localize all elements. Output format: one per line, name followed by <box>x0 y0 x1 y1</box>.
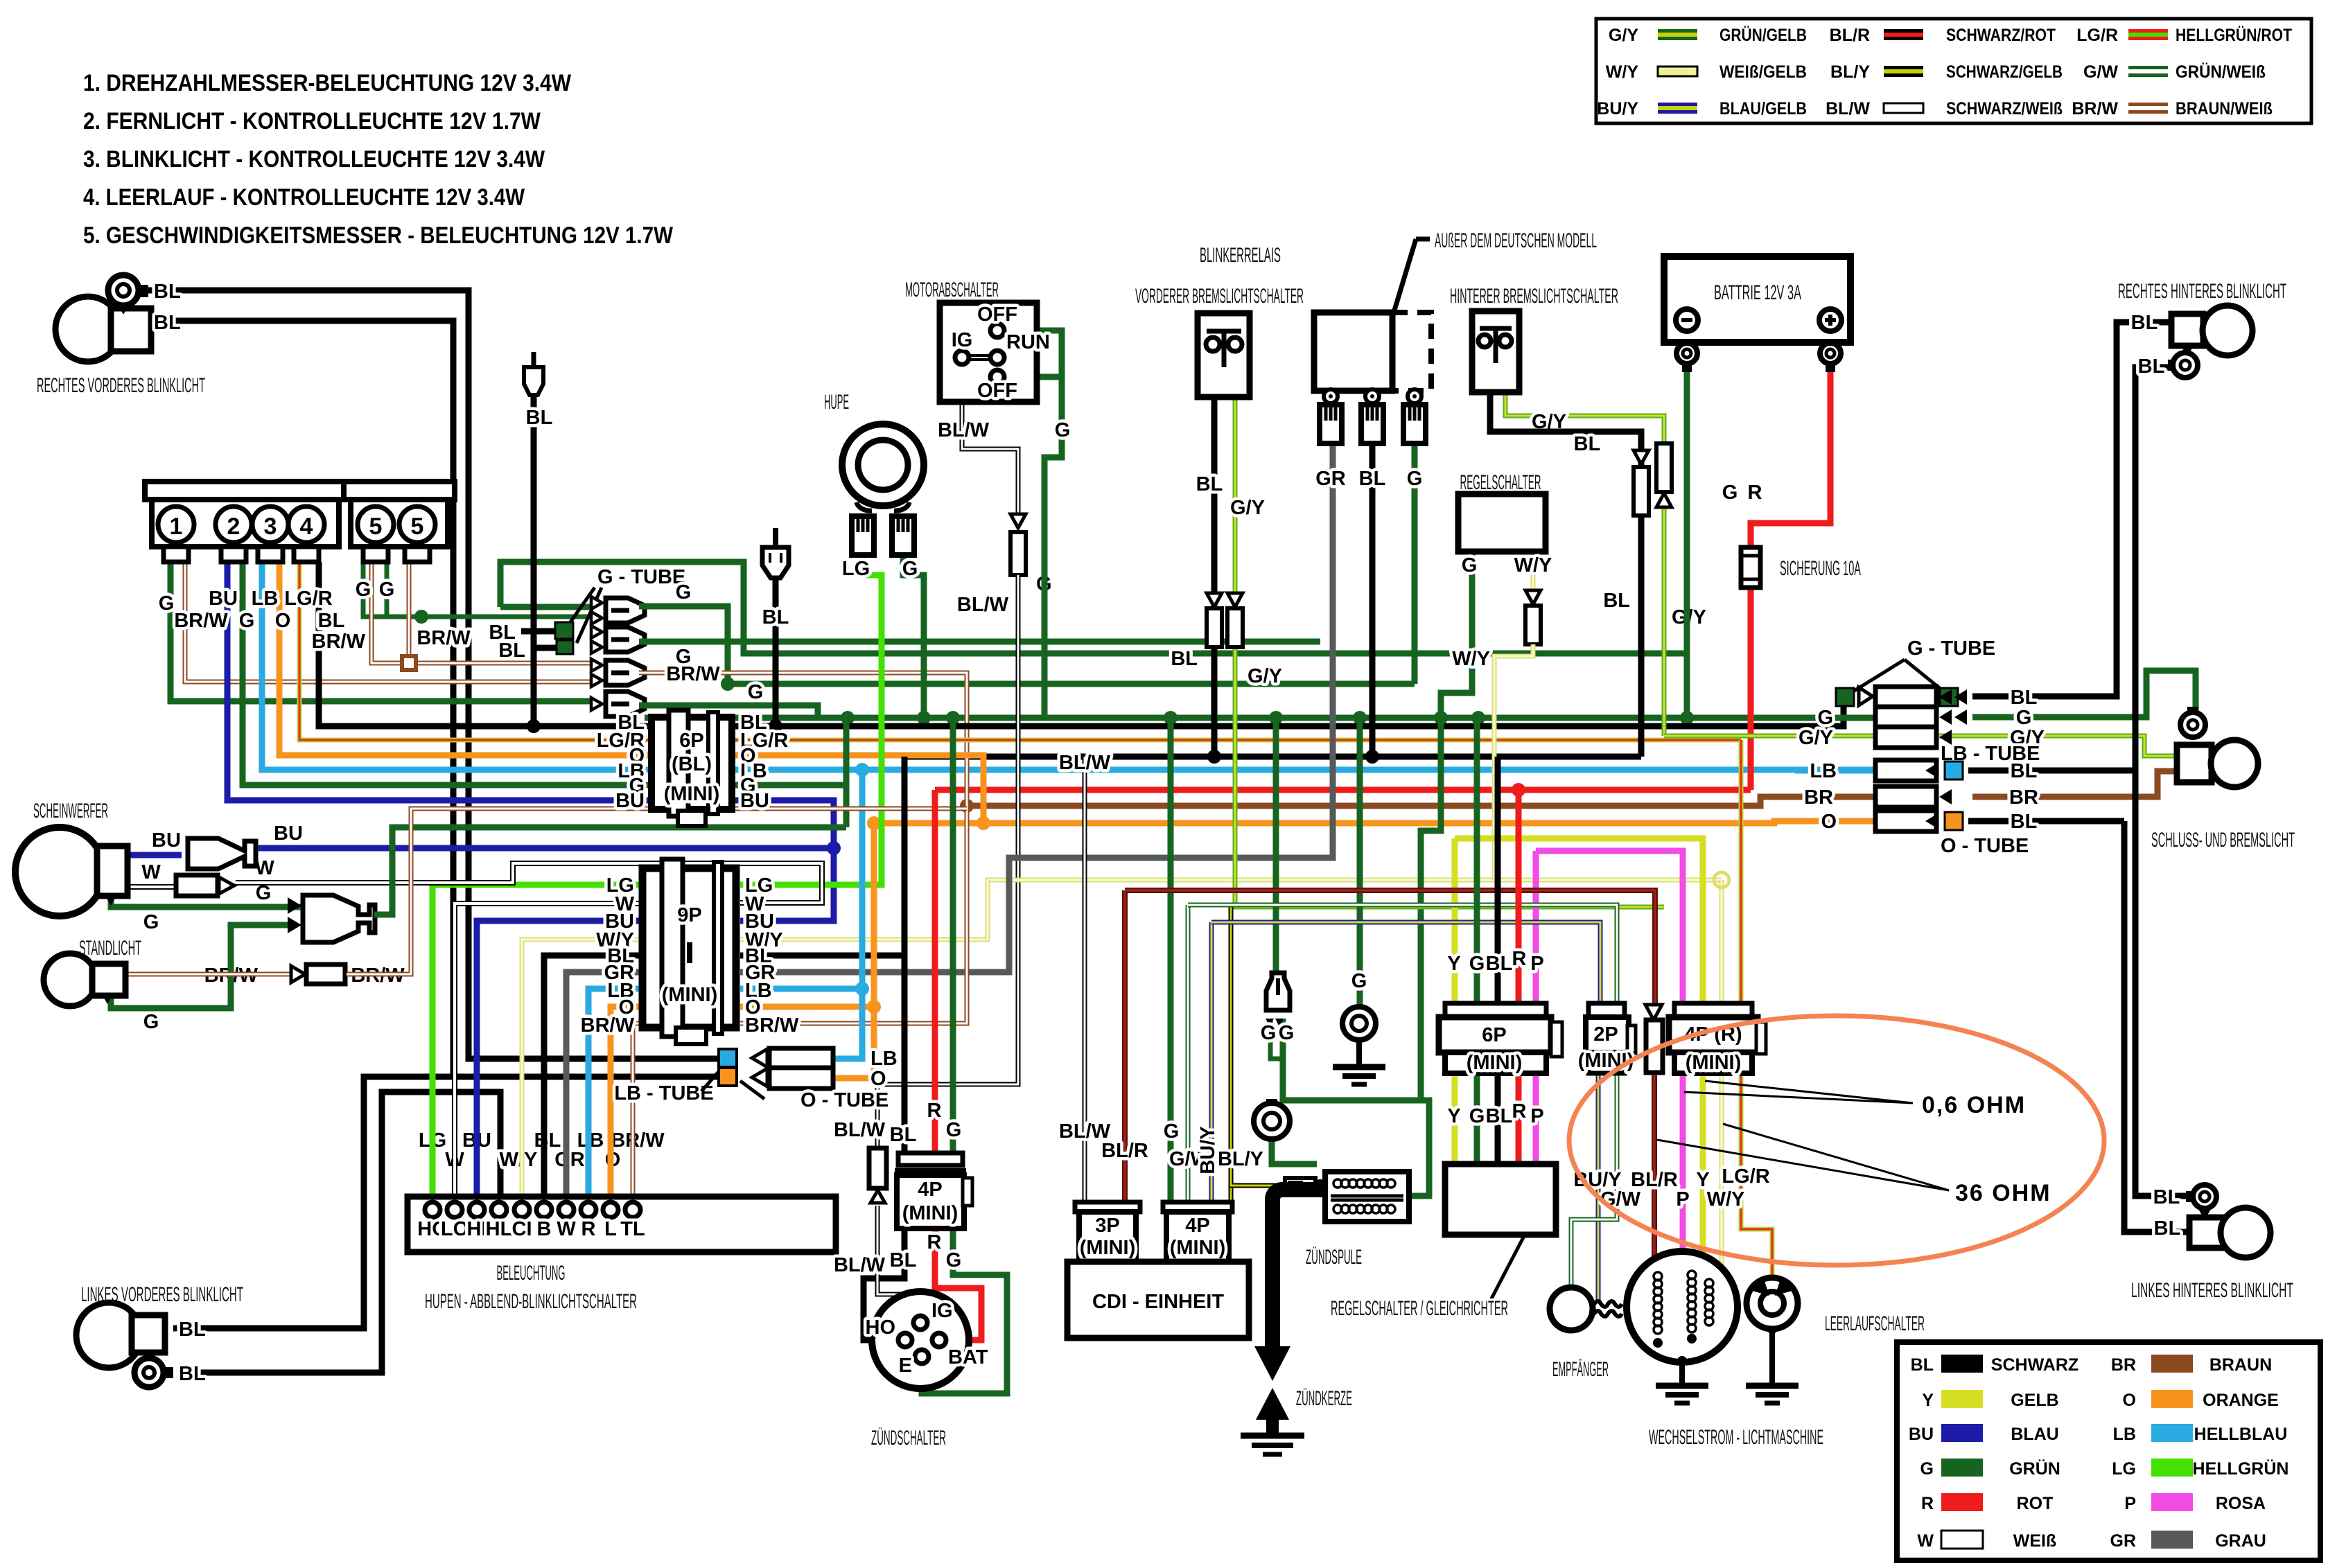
wire R bus <box>935 787 1751 793</box>
svg-text:GR: GR <box>1315 468 1346 490</box>
wire G-TUBE row4 out <box>639 705 818 718</box>
svg-text:Y: Y <box>1922 1391 1934 1410</box>
svg-text:EMPFÄNGER: EMPFÄNGER <box>1552 1358 1609 1381</box>
wire stop switch G1 <box>1004 331 1062 377</box>
svg-text:BL: BL <box>2011 760 2038 782</box>
wire Y loop h <box>1455 838 1703 1003</box>
wire switch HO LG <box>432 885 642 1201</box>
svg-text:4: 4 <box>300 513 313 540</box>
connector row G <box>1875 707 1936 728</box>
svg-text:R: R <box>927 1231 942 1253</box>
svg-text:4P: 4P <box>918 1179 942 1201</box>
wire headlight W <box>128 884 176 890</box>
svg-text:G: G <box>946 1119 962 1141</box>
svg-text:(MINI): (MINI) <box>1080 1237 1136 1259</box>
svg-text:BAT: BAT <box>948 1346 988 1368</box>
wire blinker BL drop <box>531 395 537 726</box>
wire cluster lamp1 G <box>170 562 591 701</box>
svg-text:G: G <box>1469 1105 1485 1127</box>
svg-text:O - TUBE: O - TUBE <box>800 1089 889 1111</box>
svg-text:1: 1 <box>170 513 183 540</box>
svg-text:BR/W: BR/W <box>417 627 471 649</box>
wire cluster lamp1 BRW <box>185 562 591 682</box>
svg-text:BR: BR <box>2111 1355 2136 1375</box>
svg-text:HELLGRÜN/ROT: HELLGRÜN/ROT <box>2176 25 2292 45</box>
svg-text:W: W <box>557 1218 576 1240</box>
svg-text:2: 2 <box>227 513 240 540</box>
svg-text:BATTRIE 12V 3A: BATTRIE 12V 3A <box>1714 281 1801 304</box>
wire 9P GR right <box>740 443 1333 972</box>
wire WY low <box>1709 1073 1722 1275</box>
svg-text:BL: BL <box>2154 1217 2181 1240</box>
wire horn G <box>903 555 924 718</box>
wire right front blinker BL1 <box>148 290 719 1059</box>
wire plug BL <box>773 578 779 726</box>
svg-text:RECHTES VORDERES BLINKLICHT: RECHTES VORDERES BLINKLICHT <box>37 374 205 397</box>
wire cluster lamp4 BL <box>319 562 651 726</box>
wire left front blinker BL2 <box>182 1092 500 1373</box>
svg-text:AUßER DEM DEUTSCHEN MODELL: AUßER DEM DEUTSCHEN MODELL <box>1435 229 1597 252</box>
connector row LB/BL with LB tube <box>1875 760 1936 781</box>
wire ign BLW <box>877 1206 920 1316</box>
svg-text:3. BLINKLICHT - KONTROLLEUCHTE: 3. BLINKLICHT - KONTROLLEUCHTE 12V 3.4W <box>83 146 545 173</box>
wire CDI G <box>1168 718 1174 1202</box>
wire headlight W2 <box>236 880 301 886</box>
neutral switch (LEERLAUFSCHALTER) <box>1747 1278 1798 1329</box>
G-TUBE green squares <box>1836 688 1854 706</box>
svg-text:SCHWARZ/WEIß: SCHWARZ/WEIß <box>1946 99 2063 118</box>
wire ign R <box>935 1228 981 1340</box>
svg-text:BRAUN/WEIß: BRAUN/WEIß <box>2176 99 2273 118</box>
svg-text:VORDERER BREMSLICHTSCHALTER: VORDERER BREMSLICHTSCHALTER <box>1135 285 1304 308</box>
wire P loop h <box>1536 851 1683 1003</box>
wire G mid <box>728 681 1415 687</box>
svg-text:BR: BR <box>1804 786 1833 809</box>
svg-text:B: B <box>537 1218 552 1240</box>
wire G row right2 <box>1972 671 2196 717</box>
O-TUBE connector <box>719 1068 737 1086</box>
svg-text:BL: BL <box>179 1319 206 1341</box>
svg-text:BL: BL <box>154 281 181 303</box>
wire R to ignition <box>932 790 938 1153</box>
svg-text:W: W <box>1917 1531 1934 1551</box>
wire horn LG <box>740 555 882 885</box>
svg-text:BU/Y: BU/Y <box>1597 99 1638 118</box>
wire cluster lamp3 LB <box>262 562 651 770</box>
wire cluster lamp2 G <box>243 562 651 785</box>
connector 9P (MINI) <box>642 859 736 1044</box>
svg-text:IG: IG <box>952 329 973 351</box>
svg-text:HO: HO <box>866 1316 896 1339</box>
svg-text:P: P <box>1676 1188 1689 1210</box>
wire relay BL pin <box>1369 446 1376 757</box>
connector row O/BL with O tube <box>1875 811 1936 831</box>
svg-text:BU/Y: BU/Y <box>1197 1126 1219 1174</box>
svg-text:HL: HL <box>486 1218 513 1240</box>
svg-text:O: O <box>870 1068 886 1090</box>
svg-text:BL/W: BL/W <box>938 419 990 441</box>
svg-text:LB: LB <box>1810 760 1837 782</box>
wire G bus <box>645 715 1875 721</box>
svg-text:BL/Y: BL/Y <box>1218 1148 1263 1170</box>
svg-text:BL: BL <box>318 610 345 632</box>
svg-text:O - TUBE: O - TUBE <box>1941 835 2029 857</box>
svg-text:R: R <box>1921 1494 1934 1513</box>
svg-text:5: 5 <box>369 513 383 540</box>
wire CDI GW <box>1186 905 1191 1202</box>
svg-text:BR/W: BR/W <box>174 610 228 632</box>
svg-text:P: P <box>1530 953 1543 975</box>
svg-text:WEIß: WEIß <box>2013 1531 2057 1551</box>
wire thinGW loop <box>1188 905 1617 1003</box>
wire GY row <box>1664 734 1875 739</box>
svg-text:BL/W: BL/W <box>1826 99 1870 118</box>
svg-text:(MINI): (MINI) <box>1686 1052 1742 1074</box>
wire switch TL BRW <box>633 1023 642 1201</box>
bullet plug above 6P <box>762 547 789 578</box>
wire BL stub to G-TUBE 2 <box>531 645 557 651</box>
wire 6P G <box>1474 1073 1480 1164</box>
svg-text:W/Y: W/Y <box>1606 62 1639 82</box>
wire BR row right <box>1972 771 2177 797</box>
wire battery G <box>1684 372 1690 718</box>
connector 3P (MINI) <box>1075 1202 1140 1262</box>
wire 9P O right <box>740 1004 874 1010</box>
svg-text:BL: BL <box>1486 1105 1513 1127</box>
wire switch HI BU <box>477 921 642 1201</box>
wire LGR low <box>1741 1073 1772 1278</box>
svg-text:(MINI): (MINI) <box>662 984 718 1006</box>
svg-text:LB: LB <box>870 1048 898 1070</box>
svg-text:BL: BL <box>890 1124 917 1146</box>
svg-text:MOTORABSCHALTER: MOTORABSCHALTER <box>905 279 999 301</box>
wire G-TUBE row1 out <box>639 606 728 684</box>
svg-text:G: G <box>1462 554 1478 576</box>
wire regelschalter G <box>1441 552 1472 718</box>
svg-text:Y: Y <box>1447 1105 1460 1127</box>
wire RR blinker BL1 <box>1972 322 2173 696</box>
light/horn/dimmer switch box (BELEUCHTUNG HUPEN-ABBLEND-BLINKLICHTSCHALTER) <box>408 1197 836 1252</box>
pickup coil (EMPFÄNGER) <box>1550 1287 1593 1330</box>
wire LR blinker BL1 <box>2135 770 2193 1196</box>
spark plug cable and plug (ZÜNDKERZE) <box>1272 1190 1325 1346</box>
svg-text:(BL): (BL) <box>672 753 712 775</box>
svg-text:R: R <box>581 1218 596 1240</box>
wire cluster lamp3 O <box>279 562 651 755</box>
wire LR blinker BL2 <box>2124 821 2189 1232</box>
svg-text:BR/W: BR/W <box>2072 99 2118 118</box>
wire LB row left <box>1795 768 1875 774</box>
wire G-TUBE row2 out <box>639 639 1320 645</box>
wire 6P row LB right <box>732 767 862 773</box>
wire switch R LB <box>588 989 642 1201</box>
svg-text:BR/W: BR/W <box>611 1129 665 1152</box>
svg-text:LG: LG <box>2112 1459 2136 1479</box>
svg-text:WEIß/GELB: WEIß/GELB <box>1719 62 1807 82</box>
svg-text:O: O <box>2123 1391 2136 1410</box>
measurement ellipse (orange) <box>1569 1016 2104 1265</box>
svg-text:OFF: OFF <box>977 303 1017 326</box>
svg-text:CI: CI <box>512 1218 532 1240</box>
svg-text:W: W <box>141 861 161 883</box>
svg-text:BL/W: BL/W <box>834 1119 886 1141</box>
svg-text:G: G <box>143 911 159 933</box>
wire switch L O <box>611 1007 642 1201</box>
svg-text:BR/W: BR/W <box>581 1014 635 1037</box>
wire BL to ignition <box>902 757 908 1153</box>
wire RR blinker BL2 <box>1968 367 2168 770</box>
connector 6P (MINI) bottom <box>1439 1003 1562 1074</box>
svg-text:BU: BU <box>1909 1425 1934 1444</box>
wire 6P P low <box>1533 1073 1539 1164</box>
right front turn signal lamp (RECHTES VORDERES BLINKLICHT) <box>55 275 151 362</box>
connector row G/Y <box>1875 727 1936 748</box>
svg-text:5. GESCHWINDIGKEITSMESSER - BE: 5. GESCHWINDIGKEITSMESSER - BELEUCHTUNG … <box>83 222 674 249</box>
wire color legend (top right) <box>1596 19 2311 123</box>
svg-text:G/W: G/W <box>2083 62 2118 82</box>
svg-text:G: G <box>1469 953 1485 975</box>
svg-text:BR/W: BR/W <box>745 1014 799 1037</box>
wire BL bus <box>904 754 1641 760</box>
wire color legend (bottom right) <box>1897 1342 2320 1560</box>
wire standlicht BRW2 <box>347 809 967 974</box>
wire switch W GR <box>566 972 642 1201</box>
wire G ring CDI <box>1272 1140 1317 1164</box>
svg-text:SICHERUNG 10A: SICHERUNG 10A <box>1780 557 1861 580</box>
wire 6P R low <box>1516 1073 1522 1164</box>
svg-text:BL: BL <box>154 312 181 334</box>
wire stop switch BLW lower <box>877 575 1018 1148</box>
ignition switch (ZÜNDSCHALTER) <box>872 1292 969 1389</box>
svg-text:(MINI): (MINI) <box>902 1202 959 1224</box>
svg-text:WECHSELSTROM - LICHTMASCHINE: WECHSELSTROM - LICHTMASCHINE <box>1649 1426 1823 1449</box>
svg-text:G - TUBE: G - TUBE <box>1907 637 1995 660</box>
wire CDI BLW <box>1083 757 1087 1202</box>
wire P loop <box>1533 851 1539 1003</box>
wire 6P row BL right <box>732 697 1844 726</box>
svg-text:BL/W: BL/W <box>957 594 1009 616</box>
svg-text:G/W: G/W <box>1600 1188 1641 1210</box>
svg-text:G: G <box>1261 1022 1277 1044</box>
wire 6P row O right <box>732 755 983 823</box>
svg-text:BL/R: BL/R <box>1631 1169 1678 1191</box>
svg-text:W/Y: W/Y <box>1707 1188 1745 1210</box>
wire thinred loop <box>1125 890 1655 1003</box>
wire G grounded terminal <box>1357 718 1363 1006</box>
svg-text:GR: GR <box>2110 1531 2137 1551</box>
svg-text:G: G <box>1920 1459 1934 1479</box>
svg-text:4P: 4P <box>1185 1215 1209 1237</box>
wire thin W/Y vert <box>986 880 990 940</box>
svg-text:HINTERER BREMSLICHTSCHALTER: HINTERER BREMSLICHTSCHALTER <box>1450 285 1618 308</box>
svg-text:SCHWARZ/ROT: SCHWARZ/ROT <box>1946 26 2056 45</box>
wire plugcap G pair a <box>1270 1019 1283 1059</box>
svg-text:LO: LO <box>441 1218 469 1240</box>
svg-text:HUPE: HUPE <box>824 391 849 414</box>
svg-text:G - TUBE: G - TUBE <box>597 566 685 588</box>
connector 4P (R) (MINI) <box>1669 1003 1766 1074</box>
svg-text:REGELSCHALTER / GLEICHRICHTER: REGELSCHALTER / GLEICHRICHTER <box>1331 1297 1508 1320</box>
svg-text:BU: BU <box>615 790 645 812</box>
bullet connector row 4 (G) <box>606 691 645 716</box>
wire GY row right <box>1939 736 2177 756</box>
wire 6P BL <box>1495 1073 1501 1164</box>
wire 6P G vertical <box>843 718 850 827</box>
svg-text:(MINI): (MINI) <box>1170 1237 1226 1259</box>
svg-text:SCHEINWERFER: SCHEINWERFER <box>33 800 108 822</box>
wire G row from arrows <box>1795 715 1875 721</box>
svg-text:1. DREHZAHLMESSER-BELEUCHTUNG: 1. DREHZAHLMESSER-BELEUCHTUNG 12V 3.4W <box>83 70 572 96</box>
svg-text:SCHWARZ/GELB: SCHWARZ/GELB <box>1946 62 2063 82</box>
grounded ring terminal near CDI <box>1254 1103 1290 1139</box>
wire BL stub to G-TUBE 1 <box>521 628 555 635</box>
wire G loop overhead <box>500 562 1687 653</box>
wire front brake switch BL <box>1211 351 1218 757</box>
resistor with diode (BL/R branch) <box>1645 1005 1662 1020</box>
svg-text:O: O <box>1821 811 1837 833</box>
fuse (SICHERUNG 10A) <box>1741 547 1760 588</box>
svg-text:G: G <box>902 558 918 580</box>
svg-text:9P: 9P <box>677 904 701 926</box>
svg-text:BL: BL <box>2131 312 2158 334</box>
svg-text:BL: BL <box>1911 1355 1934 1375</box>
svg-text:BL: BL <box>1196 473 1223 495</box>
rectifier box (REGELSCHALTER / GLEICHRICHTER) <box>1445 1164 1556 1235</box>
wire ign G <box>922 1228 1007 1393</box>
svg-text:BL/W: BL/W <box>834 1254 886 1276</box>
svg-text:BL/R: BL/R <box>1101 1140 1148 1162</box>
wire cluster 5 BRW a <box>371 562 591 663</box>
svg-text:HI: HI <box>467 1218 487 1240</box>
svg-text:BL: BL <box>526 407 553 429</box>
svg-text:HUPEN - ABBLEND-BLINKLICHTSCHA: HUPEN - ABBLEND-BLINKLICHTSCHALTER <box>425 1290 637 1313</box>
svg-text:G: G <box>1722 482 1738 504</box>
wire Y loop <box>1452 838 1458 1003</box>
svg-text:BL: BL <box>1359 468 1386 490</box>
svg-text:3P: 3P <box>1095 1215 1119 1237</box>
svg-text:BL: BL <box>890 1249 917 1271</box>
wire cluster lamp5a G <box>363 562 591 617</box>
wire cluster lamp5b G <box>385 562 390 617</box>
wire 6P R <box>1516 790 1522 1003</box>
svg-text:G: G <box>748 681 764 703</box>
svg-text:G: G <box>1055 419 1071 441</box>
svg-text:G: G <box>356 579 371 601</box>
svg-text:GR: GR <box>554 1149 585 1171</box>
wire 6P BL up <box>1495 757 1501 1003</box>
CDI unit box (CDI-EINHEIT) <box>1067 1262 1249 1338</box>
battery (BATTRIE 12V 3A) <box>1664 256 1850 342</box>
wire right front blinker BL2 <box>148 321 453 1077</box>
wire 9P LG right <box>740 882 882 888</box>
svg-text:LINKES HINTERES BLINKLICHT: LINKES HINTERES BLINKLICHT <box>2131 1279 2293 1302</box>
svg-text:G: G <box>159 592 175 615</box>
wire BLY to coil <box>1231 1171 1285 1186</box>
svg-text:BL: BL <box>2011 811 2038 833</box>
wire O tube out <box>833 823 874 1078</box>
wire 6P Y <box>1452 1073 1458 1164</box>
wire standlicht BRW <box>125 972 290 977</box>
wire G-TUBE row3 out BR/W <box>639 673 967 806</box>
wire coil G <box>1283 1019 1429 1196</box>
svg-text:RUN: RUN <box>1006 331 1050 353</box>
svg-text:G: G <box>2016 707 2032 729</box>
wire regelschalter WY <box>1531 552 1536 590</box>
svg-text:G: G <box>379 579 395 601</box>
svg-text:LG/R: LG/R <box>284 588 332 610</box>
svg-text:IG: IG <box>931 1300 953 1322</box>
ignition coil (ZÜNDSPULE) <box>1325 1172 1409 1222</box>
wire LGR vert <box>1739 740 1744 1003</box>
svg-text:SCHWARZ: SCHWARZ <box>1991 1355 2078 1375</box>
svg-text:GRÜN: GRÜN <box>2009 1459 2060 1479</box>
alternator (WECHSELSTROM - LICHTMASCHINE) <box>1627 1251 1738 1362</box>
connector 2P (MINI) <box>1578 1003 1636 1073</box>
svg-text:LB: LB <box>2113 1425 2136 1444</box>
svg-text:BL: BL <box>2011 687 2038 709</box>
wire switch CI WY <box>522 940 642 1201</box>
wire thinBUY loop <box>1211 922 1600 1003</box>
wire rear brake switch BL <box>1490 367 1641 757</box>
svg-text:BR/W: BR/W <box>312 631 366 653</box>
indicator cluster lamps 1-4 <box>145 482 346 562</box>
svg-text:OFF: OFF <box>977 380 1017 402</box>
svg-text:ROSA: ROSA <box>2216 1494 2266 1513</box>
svg-text:LB - TUBE: LB - TUBE <box>614 1082 713 1104</box>
wire 9P BL right <box>740 953 904 959</box>
svg-text:LEERLAUFSCHALTER: LEERLAUFSCHALTER <box>1825 1312 1925 1335</box>
svg-text:GRÜN/GELB: GRÜN/GELB <box>1719 25 1807 45</box>
wire 2P GW low <box>1571 1073 1617 1287</box>
svg-text:2P: 2P <box>1593 1023 1618 1046</box>
wire Y low <box>1696 1073 1703 1265</box>
svg-text:W/Y: W/Y <box>1514 554 1552 576</box>
svg-text:G: G <box>1279 1022 1295 1044</box>
wire 9P LB right <box>740 986 862 992</box>
svg-text:LB: LB <box>252 588 279 610</box>
svg-text:6P: 6P <box>679 730 703 752</box>
svg-text:P: P <box>2124 1494 2136 1513</box>
svg-text:LG/R: LG/R <box>2076 26 2118 45</box>
svg-text:W: W <box>255 857 274 879</box>
bullet plug on BL drop <box>524 367 543 395</box>
wire LB tube out <box>833 770 862 1059</box>
svg-text:G: G <box>239 610 255 632</box>
wire headlight BU2 <box>258 845 834 852</box>
svg-text:4. LEERLAUF - KONTROLLEUCHTE 1: 4. LEERLAUF - KONTROLLEUCHTE 12V 3.4W <box>83 184 525 211</box>
svg-text:0,6 OHM: 0,6 OHM <box>1922 1092 2026 1118</box>
svg-text:G/Y: G/Y <box>1248 665 1282 687</box>
svg-text:W/Y: W/Y <box>1452 648 1490 670</box>
svg-text:ZÜNDSPULE: ZÜNDSPULE <box>1306 1246 1362 1269</box>
wire 9P BRW right <box>740 806 967 1023</box>
svg-text:O: O <box>275 610 291 632</box>
wire 6P row BU right <box>732 800 834 921</box>
svg-text:BR/W: BR/W <box>666 663 720 685</box>
svg-text:G: G <box>946 1249 962 1271</box>
svg-text:G: G <box>1817 707 1833 729</box>
svg-text:BLINKERRELAIS: BLINKERRELAIS <box>1200 244 1281 267</box>
wire relay GR pin <box>1330 443 1336 446</box>
svg-text:BL/W: BL/W <box>1059 752 1111 774</box>
wire headlight G <box>111 896 305 907</box>
wire CDI BUY <box>1209 922 1214 1202</box>
svg-text:STANDLICHT: STANDLICHT <box>79 937 141 960</box>
wire cluster lamp4 LGR <box>299 562 651 740</box>
svg-text:Y: Y <box>1447 953 1460 975</box>
indicator cluster lamps 5-5 <box>344 482 455 562</box>
svg-text:SCHLUSS- UND BREMSLICHT: SCHLUSS- UND BREMSLICHT <box>2151 829 2295 852</box>
